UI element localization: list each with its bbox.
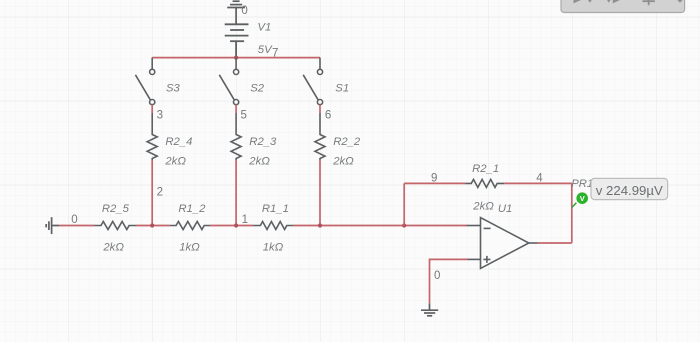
op-amp U1 bbox=[467, 218, 538, 269]
wire: feedback top left segment bbox=[404, 182, 465, 184]
resistor R1_2 bbox=[170, 222, 211, 230]
svg-text:R2_4: R2_4 bbox=[165, 136, 192, 148]
svg-text:R1_2: R1_2 bbox=[178, 203, 206, 215]
wire: R2_5 to node 2 junction bbox=[136, 225, 170, 227]
svg-text:6: 6 bbox=[325, 109, 331, 121]
svg-text:5: 5 bbox=[241, 109, 247, 121]
svg-text:0: 0 bbox=[241, 5, 247, 17]
battery V1 bbox=[225, 24, 249, 57]
svg-text:S1: S1 bbox=[335, 82, 349, 94]
resistor R2_5 bbox=[95, 222, 137, 230]
svg-text:2kΩ: 2kΩ bbox=[332, 156, 354, 168]
wire: S3 to R2_4 bbox=[151, 105, 153, 113]
svg-text:R2_1: R2_1 bbox=[472, 163, 499, 175]
svg-text:2kΩ: 2kΩ bbox=[472, 200, 494, 212]
junction (R2_2 column / bus) bbox=[318, 223, 322, 227]
wire: S1 to R2_2 bbox=[319, 105, 321, 113]
wire: op-amp output bbox=[538, 242, 572, 244]
svg-text:2: 2 bbox=[157, 186, 163, 198]
resistor R1_1 bbox=[254, 222, 294, 230]
svg-text:R2_5: R2_5 bbox=[102, 203, 130, 215]
probe PR1 pointer bbox=[572, 203, 577, 208]
junction (node 1) bbox=[234, 223, 238, 227]
svg-text:9: 9 bbox=[431, 172, 437, 184]
wire: R2_3 to bottom bus bbox=[235, 160, 237, 226]
svg-text:2kΩ: 2kΩ bbox=[102, 241, 124, 253]
svg-text:R2_2: R2_2 bbox=[333, 136, 361, 148]
svg-text:2kΩ: 2kΩ bbox=[164, 156, 186, 168]
switch S3 bbox=[135, 69, 154, 104]
svg-text:V1: V1 bbox=[258, 22, 272, 34]
wire: bus to S3 bbox=[151, 58, 153, 70]
wire: R2_4 to bottom bus (node 2) bbox=[151, 160, 153, 226]
wire: bus to S1 bbox=[319, 58, 321, 70]
toolbar icon: zoom-to-selection arrows (right) bbox=[607, 0, 611, 3]
junction (battery / top bus) bbox=[234, 56, 238, 60]
svg-text:V: V bbox=[580, 194, 585, 203]
svg-text:1: 1 bbox=[242, 214, 248, 226]
wire: S2 to R2_3 bbox=[235, 105, 237, 113]
wire: R2_2 to bottom bus bbox=[319, 160, 321, 226]
resistor R2_3 bbox=[231, 113, 241, 160]
toolbar icon: zoom-to-fit arrows (left) bbox=[574, 0, 582, 3]
wire: R1_1 to op-amp input bus bbox=[293, 225, 467, 227]
ground (op-amp non-inverting input) bbox=[421, 303, 438, 316]
toolbar icon: zoom plus bbox=[643, 0, 655, 5]
svg-text:5V: 5V bbox=[258, 44, 273, 56]
wire: R1_2 to node 1 junction bbox=[210, 225, 254, 227]
wire: bus to S2 bbox=[235, 58, 237, 70]
toolbar icon: partial (right edge) bbox=[677, 0, 682, 3]
svg-text:S3: S3 bbox=[166, 82, 181, 94]
junction (node 2) bbox=[150, 223, 154, 227]
svg-text:R2_3: R2_3 bbox=[249, 136, 277, 148]
wire: top bus bbox=[152, 57, 320, 59]
wire: ground to R2_5 bbox=[59, 225, 95, 227]
svg-text:U1: U1 bbox=[498, 203, 512, 215]
resistor R2_2 bbox=[315, 113, 325, 160]
svg-text:PR1: PR1 bbox=[571, 178, 593, 190]
svg-text:2kΩ: 2kΩ bbox=[248, 156, 270, 168]
svg-text:3: 3 bbox=[157, 109, 163, 121]
svg-text:R1_1: R1_1 bbox=[262, 203, 289, 215]
probe PR1 head bbox=[576, 192, 588, 204]
ground (left, node 0) bbox=[46, 217, 59, 234]
resistor R2_4 bbox=[147, 113, 157, 160]
resistor R2_1 bbox=[466, 179, 505, 187]
switch S2 bbox=[219, 69, 238, 104]
svg-text:0: 0 bbox=[71, 214, 77, 226]
svg-text:0: 0 bbox=[434, 270, 440, 282]
zoom toolbar (top right, cropped) bbox=[561, 0, 685, 13]
wire: feedback top right segment bbox=[504, 182, 572, 184]
wire: feedback drop to output bbox=[571, 183, 573, 242]
svg-text:S2: S2 bbox=[250, 82, 265, 94]
svg-text:1kΩ: 1kΩ bbox=[179, 241, 200, 253]
junction (feedback node 9 tap) bbox=[402, 223, 406, 227]
wire: non-inverting input to ground bbox=[430, 259, 468, 303]
svg-text:1kΩ: 1kΩ bbox=[263, 241, 284, 253]
probe readout tooltip v 224.99uV bbox=[591, 178, 668, 199]
svg-text:v 224.99µV: v 224.99µV bbox=[596, 183, 663, 198]
switch S1 bbox=[303, 69, 322, 104]
ground (top, at V1 positive) bbox=[227, 1, 245, 23]
wire: feedback riser bbox=[403, 183, 405, 225]
